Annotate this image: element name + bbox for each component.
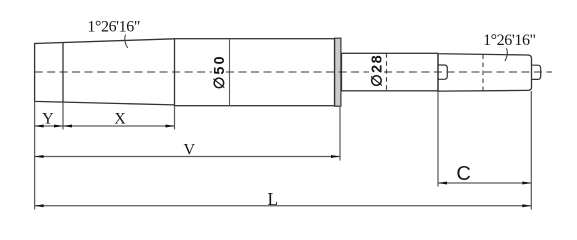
left angle leader <box>125 35 128 48</box>
right taper cone <box>438 54 532 91</box>
extension line far left <box>34 101 36 209</box>
svg-text:V: V <box>184 142 196 159</box>
right angle leader <box>505 48 507 61</box>
dimension L <box>35 91 532 209</box>
dimension Y <box>35 111 63 128</box>
left taper shank <box>35 39 175 105</box>
journal dashed section line <box>386 53 388 91</box>
svg-text:∅28: ∅28 <box>369 54 385 87</box>
svg-text:Y: Y <box>42 111 54 128</box>
svg-text:1°26'16": 1°26'16" <box>87 19 140 36</box>
svg-text:∅50: ∅50 <box>212 54 228 89</box>
flange washer <box>335 38 341 106</box>
centerline <box>35 71 552 73</box>
dimension V <box>35 106 340 161</box>
svg-text:C: C <box>456 163 470 185</box>
dimension C <box>438 91 531 186</box>
cone left groove tab <box>438 65 447 79</box>
cone dashed section line <box>482 55 484 91</box>
svg-text:X: X <box>114 111 126 128</box>
svg-text:L: L <box>268 189 279 209</box>
body cylinder D50 <box>175 39 335 106</box>
end stub button <box>532 65 541 79</box>
journal cylinder D28 <box>342 53 439 91</box>
svg-text:1°26'16": 1°26'16" <box>483 32 536 49</box>
cylinder section line <box>229 39 231 106</box>
dimension X <box>63 103 175 130</box>
